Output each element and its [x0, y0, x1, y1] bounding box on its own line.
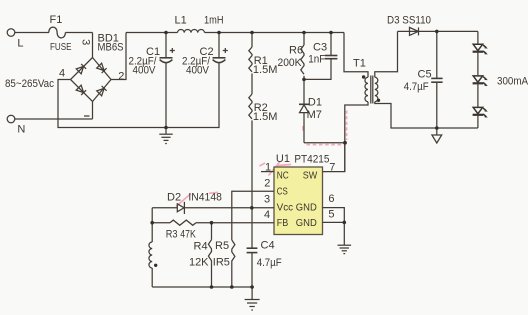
svg-text:MB6S: MB6S [98, 42, 124, 54]
svg-text:4: 4 [264, 209, 270, 221]
svg-text:3: 3 [80, 39, 92, 45]
svg-text:1: 1 [265, 162, 271, 174]
svg-text:2: 2 [264, 178, 270, 190]
svg-text:7: 7 [329, 162, 335, 174]
svg-text:C5: C5 [418, 69, 432, 81]
svg-text:T1: T1 [353, 58, 366, 70]
svg-text:U1: U1 [276, 153, 290, 165]
svg-text:FUSE: FUSE [50, 42, 72, 53]
svg-text:1nF: 1nF [308, 54, 325, 66]
svg-text:C4: C4 [261, 240, 275, 252]
svg-text:400V: 400V [133, 65, 157, 77]
svg-text:3: 3 [264, 193, 270, 205]
svg-text:12K: 12K [189, 256, 209, 268]
svg-text:200K: 200K [278, 57, 303, 69]
svg-text:R4: R4 [194, 241, 208, 253]
svg-text:47K: 47K [180, 229, 196, 241]
svg-text:SW: SW [303, 170, 318, 182]
svg-text:CS: CS [277, 186, 288, 198]
svg-text:D3 SS110: D3 SS110 [387, 15, 431, 27]
svg-text:L1: L1 [175, 15, 187, 27]
svg-text:4.7µF: 4.7µF [257, 257, 282, 269]
svg-text:M7: M7 [307, 109, 322, 121]
svg-text:D2: D2 [167, 192, 181, 204]
svg-text:FB: FB [277, 217, 289, 229]
svg-text:5: 5 [328, 209, 334, 221]
svg-text:1.5M: 1.5M [253, 64, 278, 76]
svg-text:85~265Vac: 85~265Vac [5, 78, 54, 90]
svg-text:R3: R3 [166, 229, 178, 241]
svg-text:1mH: 1mH [204, 15, 224, 27]
svg-text:GND: GND [296, 201, 317, 213]
svg-text:Vcc: Vcc [277, 201, 294, 213]
svg-text:D1: D1 [308, 97, 322, 109]
svg-text:400V: 400V [186, 65, 210, 77]
svg-text:2: 2 [118, 71, 124, 83]
svg-text:IR5: IR5 [213, 257, 230, 269]
svg-text:GND: GND [296, 217, 317, 229]
svg-text:4.7µF: 4.7µF [404, 81, 429, 93]
svg-text:6: 6 [328, 193, 334, 205]
svg-text:R6: R6 [289, 45, 303, 57]
svg-text:1.5M: 1.5M [253, 111, 278, 123]
svg-text:IN4148: IN4148 [188, 192, 222, 204]
svg-text:N: N [17, 124, 25, 136]
svg-text:300mA: 300mA [497, 76, 528, 88]
svg-text:PT4215: PT4215 [294, 153, 329, 165]
svg-text:L: L [17, 38, 23, 50]
svg-text:NC: NC [277, 170, 289, 182]
svg-text:R5: R5 [215, 240, 229, 252]
svg-text:C3: C3 [313, 42, 327, 54]
svg-text:F1: F1 [50, 14, 63, 26]
svg-text:4: 4 [59, 68, 65, 80]
